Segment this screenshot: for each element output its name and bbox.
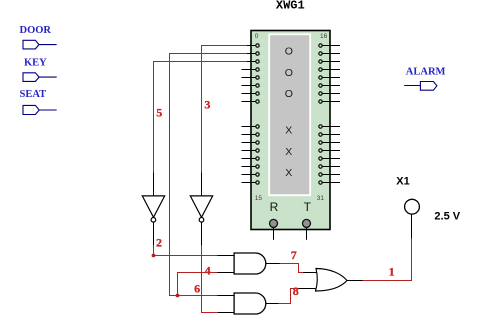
svg-text:O: O	[285, 88, 293, 100]
svg-text:5: 5	[156, 106, 162, 120]
svg-text:X: X	[285, 146, 292, 158]
svg-text:15: 15	[255, 195, 263, 202]
svg-text:2.5 V: 2.5 V	[434, 211, 460, 223]
svg-text:O: O	[285, 45, 293, 57]
svg-text:DOOR: DOOR	[20, 25, 52, 36]
svg-text:7: 7	[291, 248, 297, 262]
svg-text:31: 31	[317, 195, 325, 202]
svg-text:16: 16	[320, 33, 328, 40]
svg-text:SEAT: SEAT	[20, 89, 47, 100]
svg-text:X: X	[285, 167, 292, 179]
svg-text:1: 1	[389, 264, 395, 278]
svg-text:ALARM: ALARM	[406, 67, 446, 78]
svg-text:O: O	[285, 67, 293, 79]
svg-text:R: R	[270, 200, 279, 214]
svg-text:4: 4	[205, 263, 211, 277]
svg-text:X: X	[285, 125, 292, 137]
svg-text:XWG1: XWG1	[276, 0, 305, 13]
svg-text:3: 3	[204, 98, 210, 112]
svg-text:8: 8	[293, 284, 299, 298]
svg-text:2: 2	[156, 236, 162, 250]
svg-text:T: T	[304, 200, 312, 214]
svg-text:X1: X1	[396, 175, 409, 187]
svg-text:6: 6	[194, 282, 200, 296]
svg-text:KEY: KEY	[24, 57, 47, 68]
svg-text:0: 0	[255, 33, 259, 40]
